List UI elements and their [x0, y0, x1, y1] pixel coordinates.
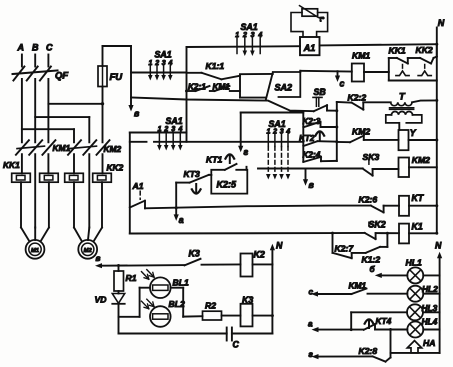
svg-text:в: в: [309, 180, 315, 190]
svg-text:KM2: KM2: [104, 144, 122, 154]
svg-text:SA1: SA1: [155, 50, 172, 60]
svg-text:K2:6: K2:6: [359, 195, 378, 205]
svg-text:KT3: KT3: [184, 169, 200, 179]
svg-text:SA1: SA1: [166, 116, 183, 126]
svg-text:N: N: [438, 18, 445, 28]
svg-text:K2:8: K2:8: [359, 346, 378, 356]
svg-text:KM1: KM1: [213, 82, 231, 91]
svg-text:б: б: [370, 264, 376, 274]
svg-text:г: г: [244, 147, 249, 157]
svg-text:M1: M1: [31, 248, 39, 254]
svg-text:VD: VD: [95, 295, 107, 305]
svg-text:SA1: SA1: [269, 119, 286, 129]
svg-text:KM1: KM1: [53, 143, 71, 153]
svg-text:KM2: KM2: [352, 127, 370, 137]
svg-text:KT: KT: [412, 193, 424, 203]
svg-text:K2:2: K2:2: [348, 93, 367, 103]
svg-text:N: N: [276, 241, 283, 251]
svg-text:SK3: SK3: [363, 152, 380, 162]
svg-text:HL4: HL4: [422, 317, 438, 327]
svg-text:KT1: KT1: [206, 155, 222, 165]
svg-text:K3: K3: [242, 295, 253, 305]
svg-text:KM2: KM2: [412, 155, 430, 165]
svg-text:с: с: [309, 288, 314, 297]
svg-text:Y: Y: [410, 128, 417, 138]
svg-text:C: C: [46, 43, 53, 53]
svg-text:M2: M2: [84, 248, 93, 254]
svg-text:K2:5: K2:5: [217, 180, 238, 190]
svg-text:KK2: KK2: [416, 45, 433, 55]
svg-text:KM1: KM1: [349, 281, 367, 291]
svg-text:с: с: [340, 79, 345, 89]
svg-text:KT4: KT4: [376, 316, 392, 326]
svg-text:KM1: KM1: [352, 51, 370, 61]
svg-text:A1: A1: [132, 181, 144, 191]
svg-text:SA1: SA1: [241, 22, 258, 32]
svg-text:SK2: SK2: [369, 220, 386, 230]
svg-text:K1:2: K1:2: [362, 255, 381, 265]
svg-text:N: N: [435, 241, 442, 251]
svg-text:R2: R2: [205, 301, 216, 311]
svg-text:K3: K3: [189, 249, 200, 259]
svg-text:KK1: KK1: [3, 160, 20, 170]
svg-text:K2:4: K2:4: [303, 151, 321, 160]
svg-text:в: в: [96, 254, 101, 263]
svg-text:BL2: BL2: [169, 299, 185, 309]
svg-text:HL2: HL2: [422, 284, 438, 294]
svg-text:KK2: KK2: [107, 163, 124, 173]
svg-text:t°: t°: [320, 16, 325, 24]
svg-text:а: а: [308, 320, 313, 329]
svg-text:A: A: [17, 43, 25, 53]
svg-text:а: а: [179, 215, 184, 225]
svg-text:г: г: [309, 350, 314, 359]
svg-text:T: T: [399, 91, 406, 102]
svg-text:R1: R1: [126, 273, 137, 283]
svg-text:SA2: SA2: [275, 83, 293, 93]
svg-text:С: С: [233, 340, 240, 350]
svg-text:K1:1: K1:1: [206, 61, 225, 71]
svg-text:BL1: BL1: [173, 278, 189, 288]
svg-text:B: B: [32, 43, 39, 53]
svg-text:HL3: HL3: [422, 303, 438, 313]
svg-text:K2:1: K2:1: [188, 82, 206, 91]
svg-text:K2:7: K2:7: [335, 244, 355, 254]
svg-text:SB: SB: [314, 87, 327, 97]
svg-text:KK1: KK1: [389, 46, 406, 56]
svg-text:HL1: HL1: [406, 258, 422, 268]
svg-text:KT2: KT2: [299, 134, 315, 143]
svg-text:A1: A1: [303, 43, 316, 53]
svg-text:в: в: [134, 109, 140, 119]
svg-text:HA: HA: [423, 338, 435, 348]
svg-text:K2: K2: [254, 250, 265, 260]
svg-text:K1: K1: [412, 222, 423, 232]
svg-text:QF: QF: [55, 71, 68, 82]
svg-text:K2:3: K2:3: [303, 117, 321, 126]
svg-text:FU: FU: [110, 72, 124, 83]
